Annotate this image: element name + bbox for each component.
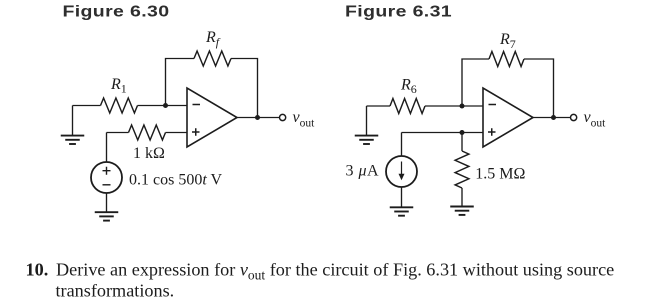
svg-text:R1: R1 xyxy=(110,76,127,96)
svg-text:3 μA: 3 μA xyxy=(346,163,380,180)
svg-text:vout: vout xyxy=(584,109,607,130)
svg-text:10.: 10. xyxy=(26,260,49,280)
svg-text:Rf: Rf xyxy=(205,29,221,49)
svg-text:transformations.: transformations. xyxy=(56,281,175,301)
svg-text:R7: R7 xyxy=(499,31,516,51)
svg-text:0.1 cos 500t V: 0.1 cos 500t V xyxy=(129,172,222,189)
svg-text:Figure 6.30: Figure 6.30 xyxy=(62,2,169,20)
svg-text:R6: R6 xyxy=(400,77,417,96)
svg-text:Derive an expression for vout: Derive an expression for vout for the ci… xyxy=(56,260,614,283)
svg-text:Figure 6.31: Figure 6.31 xyxy=(345,2,452,20)
svg-text:vout: vout xyxy=(293,109,316,130)
svg-text:1.5 MΩ: 1.5 MΩ xyxy=(475,166,525,183)
svg-text:1 kΩ: 1 kΩ xyxy=(133,145,165,162)
